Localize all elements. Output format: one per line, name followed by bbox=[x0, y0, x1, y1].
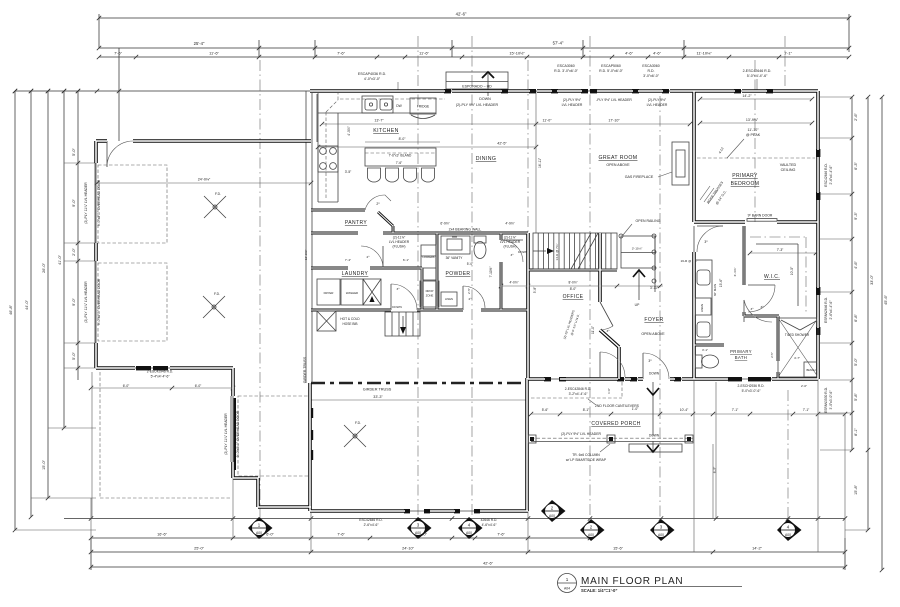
svg-text:4’-6”x4’-6”: 4’-6”x4’-6” bbox=[482, 523, 497, 527]
label powder bbox=[446, 271, 471, 277]
grid line F x660 bbox=[659, 96, 661, 518]
shear wall marker 2 upper bbox=[541, 500, 566, 522]
svg-text:(FLUSH): (FLUSH) bbox=[503, 245, 516, 249]
bedroom dim 13'-9" bbox=[698, 118, 814, 125]
svg-text:A00: A00 bbox=[658, 533, 664, 537]
svg-text:4’-7”: 4’-7” bbox=[794, 356, 800, 360]
porch post 2 bbox=[607, 435, 615, 443]
west interior wall x311 garage/house bbox=[306, 91, 312, 383]
svg-text:2x4 BEARING WALL: 2x4 BEARING WALL bbox=[449, 228, 482, 232]
svg-text:4’-0⅞”: 4’-0⅞” bbox=[347, 126, 351, 135]
svg-text:w/ LP SMARTSIDE WRAP: w/ LP SMARTSIDE WRAP bbox=[566, 458, 607, 462]
stairs main flight bbox=[533, 233, 617, 269]
svg-text:COVERED PORCH: COVERED PORCH bbox=[591, 421, 640, 427]
svg-text:3’-10⅞”: 3’-10⅞” bbox=[632, 247, 643, 251]
svg-text:4’-0⅞”: 4’-0⅞” bbox=[509, 281, 518, 285]
svg-text:15’-6”: 15’-6” bbox=[613, 547, 623, 551]
shower bench bbox=[804, 362, 818, 377]
porch header note bbox=[561, 432, 601, 436]
svg-text:PRIMARY: PRIMARY bbox=[732, 173, 758, 179]
svg-text:9’-0”: 9’-0” bbox=[72, 297, 76, 305]
svg-text:6’-1”: 6’-1” bbox=[403, 258, 409, 262]
porch post 1 bbox=[528, 435, 536, 443]
svg-text:POWDER: POWDER bbox=[446, 271, 471, 277]
svg-text:41’-0”: 41’-0” bbox=[58, 254, 62, 264]
tiled shower bbox=[778, 318, 818, 377]
svg-text:(2)-PLY 11⅞” LVL HEADER: (2)-PLY 11⅞” LVL HEADER bbox=[84, 281, 88, 323]
svg-text:PANTRY: PANTRY bbox=[345, 220, 367, 226]
svg-text:45’-6”: 45’-6” bbox=[884, 294, 888, 304]
grid line C x472 bbox=[471, 36, 473, 518]
grid line I x785 bbox=[784, 36, 786, 92]
garage south wall bbox=[96, 366, 233, 388]
grid line B x418 bbox=[417, 36, 419, 518]
svg-text:24’-10”: 24’-10” bbox=[402, 547, 415, 551]
svg-text:FRIDGE: FRIDGE bbox=[417, 105, 430, 109]
svg-text:9⁰ BARN DOOR: 9⁰ BARN DOOR bbox=[748, 214, 773, 218]
svg-text:15’-6”: 15’-6” bbox=[719, 279, 723, 287]
bedroom door arc bbox=[697, 226, 723, 252]
garage south dim row bbox=[89, 386, 235, 390]
svg-text:KITCHEN: KITCHEN bbox=[373, 128, 399, 134]
svg-text:(2)-PLY 9½” LVL HEADER: (2)-PLY 9½” LVL HEADER bbox=[456, 103, 499, 107]
svg-text:(2)-11⅞”: (2)-11⅞” bbox=[504, 236, 516, 240]
overhead door dashed rect a bbox=[98, 165, 167, 243]
svg-text:F.D.: F.D. bbox=[214, 292, 220, 296]
bath linen bbox=[695, 298, 711, 315]
svg-text:2’-5”: 2’-5” bbox=[467, 288, 471, 294]
bottom dim line B2 bbox=[89, 547, 847, 555]
svg-text:TR. 6x6 COLUMN: TR. 6x6 COLUMN bbox=[572, 453, 600, 457]
porch down arrow a bbox=[647, 382, 659, 436]
svg-text:25’-0”: 25’-0” bbox=[194, 547, 204, 551]
svg-text:13’-7”: 13’-7” bbox=[374, 119, 384, 123]
svg-text:1’-0”: 1’-0” bbox=[607, 388, 611, 394]
foyer entry door arc bbox=[643, 353, 669, 379]
stairs down arrow left bbox=[518, 248, 554, 254]
svg-text:ESCA3060: ESCA3060 bbox=[642, 64, 659, 68]
svg-text:ESCAP5060: ESCAP5060 bbox=[601, 64, 621, 68]
label office bbox=[563, 294, 584, 300]
svg-text:ESPAN2646 R.D.: ESPAN2646 R.D. bbox=[824, 297, 828, 323]
svg-text:2’-6”x4’-4”-6”: 2’-6”x4’-4”-6” bbox=[829, 301, 833, 320]
svg-text:7’-6”: 7’-6” bbox=[337, 533, 345, 537]
south main wall bbox=[528, 377, 818, 381]
range cooktop bbox=[318, 146, 338, 172]
svg-text:DOWN: DOWN bbox=[649, 372, 660, 376]
hose bib box bbox=[317, 311, 360, 331]
powder dim bbox=[467, 262, 493, 277]
svg-text:11’-6”: 11’-6” bbox=[419, 51, 429, 56]
foyer west wall x619 bbox=[617, 347, 621, 379]
island stools bbox=[368, 168, 435, 182]
grid line E x590 bbox=[589, 36, 591, 518]
stairs riser note bbox=[555, 244, 559, 261]
overhead door dashed rect south bbox=[238, 396, 310, 476]
left dim lines bbox=[13, 89, 96, 532]
stairs landing bbox=[619, 234, 656, 292]
shear wall marker 3 left bbox=[407, 517, 432, 539]
shop window labels bbox=[359, 518, 497, 527]
svg-text:(2)-PLY 11⅞” LVL HEADER: (2)-PLY 11⅞” LVL HEADER bbox=[224, 413, 228, 455]
foyer west wall x600 bbox=[598, 233, 602, 302]
window label 2-ESC42646 bbox=[743, 69, 772, 90]
svg-text:(2)-PLY 9½” LVL HEADER: (2)-PLY 9½” LVL HEADER bbox=[561, 432, 601, 436]
title main floor plan bbox=[580, 576, 742, 593]
svg-text:LAUNDRY: LAUNDRY bbox=[342, 271, 369, 277]
svg-text:6’-0”: 6’-0” bbox=[123, 384, 130, 388]
drop zone bbox=[420, 281, 439, 307]
svg-text:33’-3”: 33’-3” bbox=[373, 395, 383, 399]
powder entry dim bbox=[467, 288, 471, 294]
svg-text:60” MAIN: 60” MAIN bbox=[713, 284, 717, 296]
extension lines to bottom dims bbox=[91, 379, 845, 567]
svg-text:3’-1”: 3’-1” bbox=[784, 51, 792, 56]
left apron dashed bbox=[100, 372, 230, 498]
svg-text:W.I.C.: W.I.C. bbox=[764, 274, 780, 280]
svg-text:7’-4”: 7’-4” bbox=[345, 258, 351, 262]
laundry south door arc bbox=[391, 284, 417, 310]
svg-text:BENCH: BENCH bbox=[806, 368, 815, 372]
svg-text:2-ESC42846 R.D.: 2-ESC42846 R.D. bbox=[565, 387, 591, 391]
svg-text:MAIN FLOOR PLAN: MAIN FLOOR PLAN bbox=[581, 576, 683, 587]
porch step bbox=[629, 444, 682, 452]
porch dim row bbox=[529, 407, 847, 416]
garage steps down bbox=[385, 305, 420, 336]
svg-text:ESC42646 R.D.: ESC42646 R.D. bbox=[824, 163, 828, 187]
foyer angled wall bbox=[600, 330, 619, 347]
svg-text:10’-4”: 10’-4” bbox=[680, 408, 688, 412]
svg-text:14’-2”: 14’-2” bbox=[742, 94, 752, 98]
svg-text:LOCKERS: LOCKERS bbox=[423, 256, 435, 259]
label primary bedroom bbox=[731, 173, 760, 187]
west step wall x233 bbox=[231, 368, 233, 478]
kitchen dim 13'-7" bbox=[374, 119, 552, 123]
header note kitchen right bbox=[562, 98, 668, 107]
bearing wall y233 bbox=[311, 222, 528, 234]
svg-text:11’-0”: 11’-0” bbox=[591, 326, 595, 334]
svg-text:7’-3”: 7’-3” bbox=[777, 248, 784, 252]
office dims bbox=[533, 287, 595, 334]
svg-text:2’-6”x4’-4”-6”: 2’-6”x4’-4”-6” bbox=[829, 166, 833, 185]
stair wall extension line bbox=[536, 91, 542, 233]
svg-text:A00: A00 bbox=[466, 531, 472, 535]
bath east wall x778 bbox=[777, 316, 780, 379]
svg-text:2-ESC42946 R.D.: 2-ESC42946 R.D. bbox=[147, 370, 173, 374]
bedroom south wall with barn door bbox=[694, 214, 818, 223]
svg-text:11’-6”: 11’-6” bbox=[209, 51, 219, 56]
floor drain garage upper bbox=[204, 192, 226, 218]
svg-text:13’-9⅛”: 13’-9⅛” bbox=[746, 118, 759, 122]
svg-text:11’-10”: 11’-10” bbox=[748, 128, 760, 132]
laundry north wall y268 bbox=[311, 267, 422, 270]
shower dims bbox=[770, 352, 800, 360]
shear wall marker 1 bbox=[248, 517, 273, 539]
svg-text:11’-0”: 11’-0” bbox=[543, 119, 553, 123]
svg-text:15’-8”: 15’-8” bbox=[854, 484, 858, 494]
yard dashed grid x788 bbox=[787, 390, 789, 519]
washer box bbox=[341, 279, 363, 305]
svg-text:5’-0”: 5’-0” bbox=[72, 147, 76, 155]
svg-text:4’-9⅞”: 4’-9⅞” bbox=[505, 222, 514, 226]
window label ESCA3060 b bbox=[642, 64, 659, 78]
right dim lines bbox=[820, 95, 884, 572]
svg-text:42646 R.D.: 42646 R.D. bbox=[481, 518, 498, 522]
foyer closet door bbox=[600, 352, 625, 377]
svg-text:11’-10⅛”: 11’-10⅛” bbox=[696, 51, 712, 56]
kitchen island bbox=[365, 148, 436, 166]
svg-text:5’-8”: 5’-8” bbox=[533, 287, 537, 293]
stairs section cut slashes bbox=[571, 233, 598, 269]
label great room bbox=[599, 155, 638, 167]
svg-text:3’-11”: 3’-11” bbox=[650, 286, 658, 290]
svg-text:14-R @ 7¾”: 14-R @ 7¾” bbox=[555, 244, 559, 261]
svg-text:42’-6”: 42’-6” bbox=[483, 562, 493, 566]
linen powder bbox=[441, 292, 457, 306]
window label ESCAP5060 bbox=[599, 64, 624, 73]
svg-text:(2)-11⅞”: (2)-11⅞” bbox=[393, 236, 405, 240]
svg-text:(2)-PLY 11⅞” LVL HEADER: (2)-PLY 11⅞” LVL HEADER bbox=[84, 182, 88, 224]
wic closet dashed shelving bbox=[750, 237, 806, 312]
shop west wall window blocks bbox=[309, 408, 314, 460]
overhead door panel south bbox=[234, 398, 236, 470]
svg-text:8’-1”: 8’-1” bbox=[583, 408, 590, 412]
svg-text:8’-0”: 8’-0” bbox=[570, 287, 577, 291]
svg-text:4’-6”: 4’-6” bbox=[854, 260, 858, 268]
svg-text:(2)-PLY 9½”: (2)-PLY 9½” bbox=[563, 98, 581, 102]
bedroom ridge dashed bbox=[697, 157, 815, 159]
chimney chase box ESPORADO-HD bbox=[446, 72, 508, 96]
shear wall marker 2 porch bbox=[580, 519, 605, 541]
header note down bbox=[456, 97, 499, 107]
svg-text:2’-0”: 2’-0” bbox=[72, 247, 76, 255]
window label ESCA3060 a bbox=[554, 64, 579, 73]
svg-text:DROP: DROP bbox=[426, 289, 434, 293]
svg-text:ESCA3060: ESCA3060 bbox=[557, 64, 574, 68]
svg-text:9’-0”x8’-0” OVERHEAD DOOR: 9’-0”x8’-0” OVERHEAD DOOR bbox=[97, 179, 101, 226]
powder east wall x501 bbox=[500, 233, 503, 310]
svg-text:2-ESC42646 R.D.: 2-ESC42646 R.D. bbox=[743, 69, 772, 73]
svg-text:OPEN RAILING: OPEN RAILING bbox=[636, 219, 661, 223]
porch down arrow b bbox=[647, 434, 660, 453]
powder vanity bbox=[441, 236, 470, 260]
grid line H x755 bbox=[754, 60, 756, 222]
svg-text:26’-0”: 26’-0” bbox=[42, 262, 46, 272]
svg-text:3’-5”: 3’-5” bbox=[345, 170, 352, 174]
porch post 3 bbox=[685, 435, 693, 443]
shop south wall bbox=[310, 509, 528, 513]
pantry door arc bbox=[365, 195, 391, 210]
svg-text:CEILING: CEILING bbox=[781, 168, 796, 172]
svg-text:LVL HEADER: LVL HEADER bbox=[389, 240, 410, 244]
svg-text:3’-0”x6’-0”: 3’-0”x6’-0” bbox=[643, 74, 660, 78]
porch beam bbox=[531, 438, 693, 441]
bottom dim line B1 left bbox=[89, 533, 592, 541]
toilet nook wall bbox=[694, 345, 724, 352]
west extension line x92 bbox=[91, 372, 93, 518]
svg-text:R.D.: R.D. bbox=[648, 69, 655, 73]
porch column note bbox=[566, 444, 610, 462]
great room dim 17'-10" bbox=[320, 119, 692, 127]
office dim row bbox=[499, 281, 663, 291]
svg-text:A00: A00 bbox=[256, 531, 262, 535]
svg-text:DOWN: DOWN bbox=[649, 434, 660, 438]
svg-text:DOWN: DOWN bbox=[392, 305, 402, 309]
kitchen upper cabinets dashed bbox=[317, 93, 445, 200]
svg-text:2’-5”: 2’-5” bbox=[770, 352, 774, 358]
svg-text:6’-0”: 6’-0” bbox=[195, 384, 202, 388]
svg-text:24’-0⅛”: 24’-0⅛” bbox=[198, 178, 211, 182]
laundry cabinet box bbox=[363, 279, 381, 305]
dim line T2 bbox=[97, 41, 851, 51]
svg-text:2’-6”x4’-6”: 2’-6”x4’-6” bbox=[364, 523, 379, 527]
down label foyer bbox=[649, 372, 660, 376]
header labels flush bbox=[389, 236, 521, 249]
hall door arc east bbox=[501, 240, 523, 262]
svg-text:OFFICE: OFFICE bbox=[563, 294, 584, 300]
svg-text:5’-4”x4’-4”-6”: 5’-4”x4’-4”-6” bbox=[151, 375, 170, 379]
svg-text:R.D. 5’-0”x6’-0”: R.D. 5’-0”x6’-0” bbox=[599, 69, 624, 73]
powder door arc bbox=[463, 286, 485, 310]
svg-text:ESCAP4036 R.D.: ESCAP4036 R.D. bbox=[358, 72, 386, 76]
office angled door bbox=[600, 302, 613, 333]
step wall jog bbox=[233, 478, 311, 507]
top extension lines bbox=[119, 40, 684, 141]
hall bath door arc bbox=[744, 300, 772, 322]
laundry east wall x422 bbox=[421, 268, 424, 310]
svg-text:2’-6”: 2’-6” bbox=[854, 112, 858, 120]
svg-text:VAULTED: VAULTED bbox=[780, 163, 797, 167]
shop west wall bbox=[308, 383, 312, 511]
svg-text:(2)-PLY 9½”: (2)-PLY 9½” bbox=[648, 98, 666, 102]
svg-text:8’-0⅞”: 8’-0⅞” bbox=[568, 281, 577, 285]
svg-text:BATH: BATH bbox=[735, 355, 747, 360]
svg-text:7’-6”: 7’-6” bbox=[337, 51, 345, 56]
shear wall marker 4 bbox=[458, 517, 483, 539]
svg-text:57’-4”: 57’-4” bbox=[553, 41, 564, 46]
svg-text:33’-0”: 33’-0” bbox=[870, 274, 874, 284]
overhead door label south bbox=[224, 410, 240, 457]
svg-text:2-ESCH2936 R.D.: 2-ESCH2936 R.D. bbox=[738, 384, 765, 388]
svg-text:7’-6”: 7’-6” bbox=[114, 51, 122, 56]
svg-text:PRIMARY: PRIMARY bbox=[730, 349, 752, 354]
svg-text:5’-0”x4’-4”-6”: 5’-0”x4’-4”-6” bbox=[747, 74, 768, 78]
office header note bbox=[562, 310, 580, 340]
svg-text:16’-6”: 16’-6” bbox=[157, 533, 167, 537]
shear wall marker 3 porch bbox=[650, 519, 675, 541]
right dim labels bbox=[854, 112, 888, 494]
label dining bbox=[476, 156, 497, 162]
svg-text:3’-2”x4’-4”-6”: 3’-2”x4’-4”-6” bbox=[569, 392, 588, 396]
kitchen dim 3'-5" bbox=[345, 126, 352, 174]
svg-text:15’-10½”: 15’-10½” bbox=[509, 51, 525, 56]
bedroom west wall x694 bbox=[692, 91, 696, 379]
lockers bbox=[421, 245, 436, 280]
kitchen counter top bbox=[318, 93, 436, 202]
svg-text:GAS FIREPLACE: GAS FIREPLACE bbox=[625, 175, 654, 179]
svg-text:7’-6”: 7’-6” bbox=[396, 161, 402, 165]
svg-text:14’-2”: 14’-2” bbox=[752, 547, 762, 551]
stairs rise note right bbox=[681, 259, 698, 263]
svg-text:OPEN ABOVE: OPEN ABOVE bbox=[641, 332, 665, 336]
bath vanity bbox=[694, 260, 717, 340]
svg-text:3’-1”: 3’-1” bbox=[702, 348, 708, 352]
svg-text:16’-9⅞”: 16’-9⅞” bbox=[304, 250, 308, 261]
svg-text:8’-0”: 8’-0” bbox=[399, 137, 406, 141]
svg-text:7’-6”x3’ ISLAND: 7’-6”x3’ ISLAND bbox=[389, 154, 412, 158]
roof trusses note bbox=[700, 180, 728, 205]
svg-text:9’-0”x8’-0” OVERHEAD DOOR: 9’-0”x8’-0” OVERHEAD DOOR bbox=[97, 278, 101, 325]
svg-text:A00: A00 bbox=[588, 533, 594, 537]
overhead door label west a bbox=[84, 179, 101, 226]
dryer box bbox=[317, 279, 340, 305]
bottom dim line B3 bbox=[89, 538, 847, 570]
svg-text:F.D.: F.D. bbox=[355, 421, 361, 425]
svg-text:2’-0”: 2’-0” bbox=[801, 384, 807, 388]
powder toilet bbox=[474, 236, 486, 259]
svg-text:DINING: DINING bbox=[476, 156, 497, 162]
svg-text:ZONE: ZONE bbox=[426, 294, 434, 298]
grid line D x528 bbox=[527, 60, 529, 233]
svg-text:46’-8”: 46’-8” bbox=[9, 304, 13, 314]
svg-text:5’-0”: 5’-0” bbox=[467, 262, 473, 266]
svg-text:9’-0”: 9’-0” bbox=[72, 198, 76, 206]
floor drain shop bbox=[344, 421, 366, 447]
laundry dims bbox=[304, 250, 409, 262]
svg-text:9’-3”: 9’-3” bbox=[854, 211, 858, 219]
svg-text:HOT & COLD: HOT & COLD bbox=[340, 317, 360, 321]
porch vert dim bbox=[713, 444, 717, 518]
label kitchen bbox=[373, 128, 399, 134]
svg-text:DRYER: DRYER bbox=[324, 291, 334, 295]
dim line T3 bbox=[97, 51, 851, 60]
label wic bbox=[764, 274, 780, 280]
office north wall y270 bbox=[528, 269, 617, 272]
svg-text:36” VANITY: 36” VANITY bbox=[446, 256, 464, 260]
svg-text:SCALE: 1/4”=1’-0”: SCALE: 1/4”=1’-0” bbox=[581, 588, 617, 593]
svg-text:A04: A04 bbox=[564, 587, 570, 591]
svg-text:8’-1”: 8’-1” bbox=[854, 427, 858, 435]
svg-text:DW: DW bbox=[396, 104, 402, 108]
overhead door dashed rect b bbox=[98, 263, 167, 341]
fridge bbox=[410, 98, 436, 119]
kitchen sink bbox=[362, 96, 403, 113]
svg-text:42’-5”: 42’-5” bbox=[497, 142, 507, 146]
svg-text:LVL HEADER: LVL HEADER bbox=[562, 103, 583, 107]
label foyer bbox=[641, 317, 665, 336]
cantilever dashed offset bbox=[531, 382, 622, 398]
gas fireplace bbox=[625, 142, 689, 185]
svg-text:R.D. 3’-0”x6’-0”: R.D. 3’-0”x6’-0” bbox=[554, 69, 579, 73]
label pantry bbox=[345, 220, 367, 226]
svg-text:16’-11”: 16’-11” bbox=[538, 158, 542, 168]
svg-text:GIRDER TRUSS: GIRDER TRUSS bbox=[363, 388, 392, 392]
svg-text:7’-1”: 7’-1” bbox=[732, 408, 739, 412]
svg-text:3’-0”x3’-0”-6”: 3’-0”x3’-0”-6” bbox=[829, 391, 833, 410]
svg-text:BEDROOM: BEDROOM bbox=[731, 181, 760, 187]
floor drain garage lower bbox=[203, 292, 225, 318]
powder west wall x437 bbox=[436, 233, 439, 310]
svg-text:FOYER: FOYER bbox=[644, 317, 663, 323]
wic door arc bbox=[748, 285, 775, 312]
svg-text:4’-6”: 4’-6” bbox=[653, 51, 661, 56]
svg-text:5’-8”: 5’-8” bbox=[854, 392, 858, 400]
grid line A x260 bbox=[259, 60, 261, 518]
title bubble bbox=[558, 574, 577, 593]
svg-text:A00: A00 bbox=[415, 531, 421, 535]
cantilever note bbox=[588, 399, 640, 408]
svg-text:5’-0”: 5’-0” bbox=[854, 357, 858, 365]
